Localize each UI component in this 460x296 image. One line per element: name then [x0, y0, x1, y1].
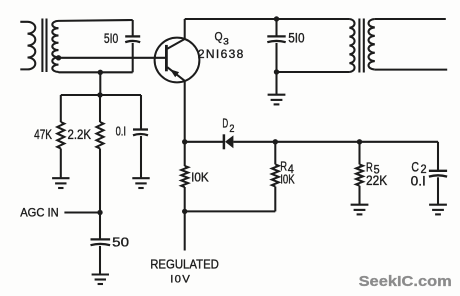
transformer T2 right winding — [369, 19, 375, 70]
capacitor 510 right — [267, 36, 285, 42]
wire base from T1 tap to Q3 base — [59, 57, 167, 59]
wire diode left lead — [185, 141, 223, 143]
capacitor C2 — [429, 171, 447, 177]
wire C2 top lead — [437, 142, 439, 170]
node junction R5 top — [357, 139, 362, 144]
wire vertical x=100 down to rail — [99, 72, 101, 95]
transformer T1 primary winding — [20, 22, 35, 70]
ground under 0.1 — [132, 178, 149, 188]
wire 0.1 bottom lead — [140, 136, 142, 178]
resistor 2.2K — [97, 122, 104, 148]
wire C50 bottom lead — [99, 246, 101, 274]
wire 0.1 top lead — [140, 95, 142, 129]
ground under 47K — [52, 178, 69, 188]
transformer T2 left winding — [349, 19, 354, 72]
wire top rail collector to T2 — [185, 18, 350, 20]
diode D2 cathode bar — [223, 134, 226, 149]
ground under C50 — [92, 275, 109, 285]
wire C2 bottom lead — [437, 177, 439, 204]
svg-text:Q: Q — [215, 30, 223, 44]
node junction bottom — [182, 209, 187, 214]
wire 2.2K top lead — [99, 95, 101, 122]
transformer T1 secondary winding — [52, 21, 58, 72]
resistor R5 — [356, 164, 363, 185]
transformer T1 core — [42, 19, 46, 73]
wire diode right to C2 — [233, 141, 438, 143]
wire 10K bottom to REGULATED — [184, 187, 186, 251]
node tap on T1 secondary — [56, 55, 61, 60]
node junction rail-C510R — [274, 16, 279, 21]
node junction AGC — [97, 210, 102, 215]
wire top-left from T1 secondary to C510L — [59, 19, 133, 22]
svg-text:REGULATED: REGULATED — [150, 257, 219, 272]
svg-text:50: 50 — [112, 235, 129, 250]
wire 47K bottom lead — [60, 149, 62, 178]
svg-text:AGC IN: AGC IN — [20, 206, 59, 219]
capacitor 510 left — [125, 36, 140, 42]
transistor Q3 emitter arrow — [170, 69, 179, 77]
transistor Q3 emitter stroke — [167, 67, 184, 81]
ground under R5 — [351, 205, 369, 215]
ground under C510R — [268, 95, 286, 105]
resistor 47K — [57, 122, 64, 148]
svg-text:D: D — [222, 116, 228, 131]
wire T1 secondary bottom lead — [59, 71, 133, 73]
svg-text:5I0: 5I0 — [104, 31, 118, 46]
node junction R4 top — [273, 139, 278, 144]
svg-text:I0K: I0K — [280, 172, 295, 186]
svg-text:2NI638: 2NI638 — [198, 47, 244, 61]
wire 2.2K bottom down to C50 — [99, 149, 101, 239]
node junction emitter-diode — [182, 139, 187, 144]
node junction rail-2.2K — [97, 92, 102, 97]
svg-text:0.I: 0.I — [411, 174, 426, 189]
svg-text:SeekIC.com: SeekIC.com — [359, 273, 452, 290]
svg-text:I0K: I0K — [191, 170, 209, 185]
transistor Q3 base bar — [165, 45, 168, 71]
wire T2 output bottom lead — [375, 69, 447, 71]
transformer T2 core — [359, 19, 363, 73]
svg-text:I0V: I0V — [170, 274, 190, 286]
wire 47K top lead — [60, 95, 62, 122]
capacitor 50 — [91, 239, 111, 245]
wire C510L lower lead — [132, 43, 134, 72]
svg-text:47K: 47K — [34, 127, 52, 142]
wire C510R bottom lead — [275, 43, 277, 72]
node junction secondary-bottom — [98, 70, 103, 75]
svg-text:0.I: 0.I — [116, 123, 126, 138]
wire T2 left winding bottom lead — [277, 71, 350, 73]
svg-text:C: C — [411, 159, 419, 174]
wire R5 top lead — [358, 142, 360, 165]
svg-text:2.2K: 2.2K — [68, 127, 92, 142]
wire R5 bottom lead — [358, 186, 360, 205]
wire bottom horizontal to R4 — [185, 210, 276, 212]
wire emitter vertical to 10K — [184, 81, 186, 166]
resistor R4 — [272, 164, 279, 186]
wire T2 output top lead — [375, 18, 446, 20]
svg-text:R: R — [280, 160, 287, 174]
wire C510R top lead — [275, 19, 277, 36]
transistor Q3 circle — [155, 38, 200, 83]
wire collector up to rail — [184, 19, 186, 39]
svg-text:2: 2 — [229, 123, 234, 135]
node junction C510R-T2bottom — [274, 69, 279, 74]
wire bias rail — [61, 94, 141, 96]
wire AGC IN lead — [64, 211, 100, 213]
resistor 10K emitter — [181, 166, 188, 187]
svg-text:22K: 22K — [366, 173, 387, 188]
transistor Q3 collector stroke — [167, 39, 184, 49]
wire C510R ground lead — [275, 72, 277, 94]
wire R4 bottom lead — [274, 187, 276, 212]
ground under C2 — [429, 205, 447, 215]
capacitor 0.1 left — [133, 130, 148, 136]
diode D2 triangle — [225, 135, 233, 148]
wire C510L upper lead — [132, 20, 134, 36]
wire R4 top lead — [274, 142, 276, 165]
svg-text:5I0: 5I0 — [288, 31, 305, 46]
